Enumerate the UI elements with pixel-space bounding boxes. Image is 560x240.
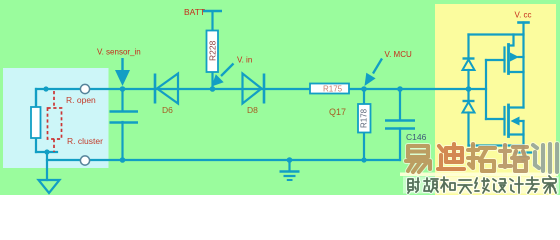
svg-text:R. cluster: R. cluster (67, 136, 103, 146)
wire: vertical to ground triangle (46, 152, 48, 180)
svg-text:V. MCU: V. MCU (385, 50, 412, 59)
svg-text:R178: R178 (360, 108, 369, 128)
capacitor C (unlabeled, after sensor box) (110, 112, 139, 123)
node: rail ground junction (287, 157, 293, 163)
wire: left resistor bottom lead (35, 89, 37, 152)
wire: top horizontal (diode top to Vcc line) (469, 33, 524, 35)
diode Dz2 (463, 101, 475, 113)
svg-text:C146: C146 (406, 132, 427, 142)
transistor Q-bottom bulk arrow (511, 117, 520, 126)
node: rail R178 junction (361, 157, 366, 162)
diode D8 (243, 74, 265, 104)
resistor R228 (207, 31, 219, 73)
wire: cap1 bottom stem (121, 122, 123, 160)
wire: gate bus vertical (485, 60, 487, 119)
transistor Q-bottom channel (507, 105, 510, 137)
wire: Q-top bulk stub (519, 56, 524, 58)
wire: Q-bottom source stub (509, 133, 524, 135)
wire: top gate stub (486, 59, 505, 61)
ground (right, in yellow box) (515, 146, 533, 161)
wire: Q-top source stub (509, 71, 524, 73)
watermark white halo band line2 (403, 177, 559, 194)
resistor R175 (310, 84, 349, 94)
wire: cap1 top stem (121, 89, 123, 111)
resistor R.open (dashed red) (48, 91, 62, 152)
transistor Q-top channel (507, 45, 510, 74)
sensor block (light blue box) (3, 68, 109, 168)
wire: main net V.sensor_in to gate bus (36, 89, 486, 107)
node: V.in junction (210, 86, 216, 92)
svg-text:Q17: Q17 (329, 107, 346, 117)
ground triangle (left) (39, 180, 60, 193)
transistor Q-top bulk arrow (510, 53, 519, 62)
wire: bottom rail (47, 159, 400, 161)
arrow V.in (221, 64, 234, 77)
wire: V.cc vertical (522, 23, 524, 108)
svg-text:D8: D8 (247, 105, 258, 115)
node: C146 junction (397, 86, 403, 92)
node: resistor bottom join (44, 149, 49, 154)
svg-text:V. cc: V. cc (515, 11, 532, 20)
svg-text:V. sensor_in: V. sensor_in (97, 48, 141, 57)
svg-text:R228: R228 (208, 40, 218, 61)
arrow V.MCU (373, 59, 382, 74)
MCU block (yellow box) (435, 4, 556, 195)
arrow V.sensor_in (121, 58, 123, 72)
watermark line1 glyphs (406, 144, 557, 172)
ground (middle) (280, 160, 300, 180)
transistor Q-bottom gate line (503, 107, 505, 135)
node: rail cap junction (120, 157, 126, 163)
svg-text:R. open: R. open (66, 95, 96, 105)
resistor R178 (358, 104, 371, 133)
wire: Q-bottom bulk stub (520, 120, 524, 122)
power V.cc T-bar (519, 21, 529, 24)
wire: source vertical to rail (522, 121, 524, 146)
node: V.sensor_in junction (120, 86, 126, 92)
wire: Q-bottom drain stub (509, 106, 524, 108)
watermark underline bar (400, 173, 558, 177)
wire: diode string segments (467, 35, 469, 146)
capacitor C146 (385, 121, 415, 129)
watermark line2 glyphs (408, 176, 556, 193)
svg-text:R175: R175 (323, 85, 343, 94)
svg-text:V. in: V. in (237, 56, 252, 65)
wire: C146 bottom stem (399, 129, 401, 161)
diode D6 (155, 74, 178, 104)
node: diode string junction (466, 86, 472, 92)
watermark line1 halo (406, 144, 557, 172)
wire: R178 branch vertical (363, 89, 365, 160)
svg-text:D6: D6 (162, 105, 173, 115)
node: V.MCU junction (361, 86, 367, 92)
battery terminal BATT (203, 11, 222, 89)
diode Dz1 (463, 59, 475, 71)
wire: bottom gate stub (486, 118, 505, 120)
wire: resistor bottoms joining wire (36, 151, 57, 153)
wire: drain jog (509, 35, 514, 46)
connector pin circle (top) (80, 84, 89, 93)
connector pin circle (bottom) (80, 156, 89, 165)
resistor R.cluster (solid, in blue box) (31, 107, 41, 138)
watermark line2 halo (408, 176, 556, 193)
wire: yellow-box bottom rail (469, 144, 524, 146)
wire: C146 top stem (399, 89, 401, 120)
svg-text:BATT: BATT (184, 7, 205, 17)
node: resistor top join (43, 86, 48, 91)
transistor Q-top gate line (503, 48, 505, 72)
